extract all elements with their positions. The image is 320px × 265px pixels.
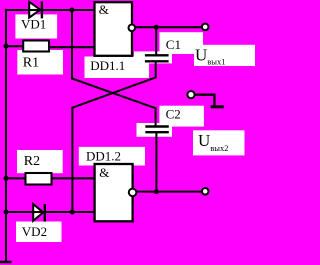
svg-text:DD1.1: DD1.1 — [90, 58, 125, 73]
wire: ground terminal horizontal — [195, 95, 215, 106]
wire: R2 row horizontal — [6, 177, 95, 179]
svg-text:R1: R1 — [23, 56, 39, 71]
wire: C2 bottom down to DD1.2 output wire — [155, 133, 157, 192]
svg-text:&: & — [99, 165, 109, 180]
terminal ground — [187, 91, 194, 98]
resistor R1 — [23, 41, 49, 52]
junction dot DD1.1 output — [154, 25, 159, 30]
svg-text:&: & — [99, 2, 109, 17]
label box U_vyh2 — [193, 130, 245, 155]
wire: left rail vertical — [5, 9, 7, 262]
label box VD1 — [15, 14, 57, 38]
ground bar — [211, 105, 224, 108]
resistor R2 — [26, 173, 52, 185]
label box DD1.2 — [79, 147, 145, 166]
wire: DD1.1 output horizontal — [135, 26, 202, 28]
label box C1 — [160, 32, 204, 54]
wire: DD1.2 output horizontal — [137, 191, 202, 193]
capacitor C1 — [145, 55, 169, 61]
wire: DD1.1 output down to C1 top — [155, 27, 157, 54]
svg-text:VD1: VD1 — [21, 17, 46, 32]
wire: top horizontal to DD1.1 input — [5, 9, 95, 11]
wire: from C1 bottom diagonal down-left to DD1.2 inputs — [72, 62, 155, 212]
capacitor C1 white background — [134, 51, 172, 63]
label box C2 — [159, 106, 204, 127]
label box DD1.1 — [85, 57, 150, 79]
wire: R1 row horizontal — [6, 45, 24, 47]
wire: VD2 row horizontal — [6, 211, 95, 213]
label box VD2 — [16, 222, 62, 243]
junction dot VD2 row / cross wire — [70, 210, 75, 215]
svg-text:DD1.2: DD1.2 — [86, 148, 121, 163]
junction dot rail VD2 — [4, 210, 9, 215]
junction dot rail R1 — [4, 44, 9, 49]
svg-text:VD2: VD2 — [22, 224, 47, 239]
diode VD2 — [32, 204, 45, 222]
terminal U_vyh2 — [202, 188, 209, 195]
wire: vertical from top junction down (cross-coupling) — [72, 10, 156, 126]
svg-text:R2: R2 — [24, 154, 40, 169]
svg-text:C1: C1 — [166, 37, 181, 52]
label box U_vyh1 — [194, 45, 255, 66]
capacitor C2 — [145, 127, 169, 133]
svg-text:C2: C2 — [166, 107, 181, 122]
label box R1 — [17, 50, 63, 75]
logic gate DD1.2 — [95, 164, 137, 221]
junction dot rail R2 — [4, 176, 9, 181]
terminal U_vyh1 — [202, 24, 209, 31]
junction dot DD1.2 output — [154, 189, 159, 194]
wire: left rail bottom foot — [0, 261, 12, 264]
logic gate DD1.1 — [95, 2, 136, 56]
junction dot top wire — [69, 8, 74, 13]
label box R2 — [17, 150, 63, 173]
wire: R1 to DD1.1 input — [49, 46, 95, 48]
diode VD1 — [28, 1, 42, 18]
capacitor C2 white background — [137, 123, 173, 137]
